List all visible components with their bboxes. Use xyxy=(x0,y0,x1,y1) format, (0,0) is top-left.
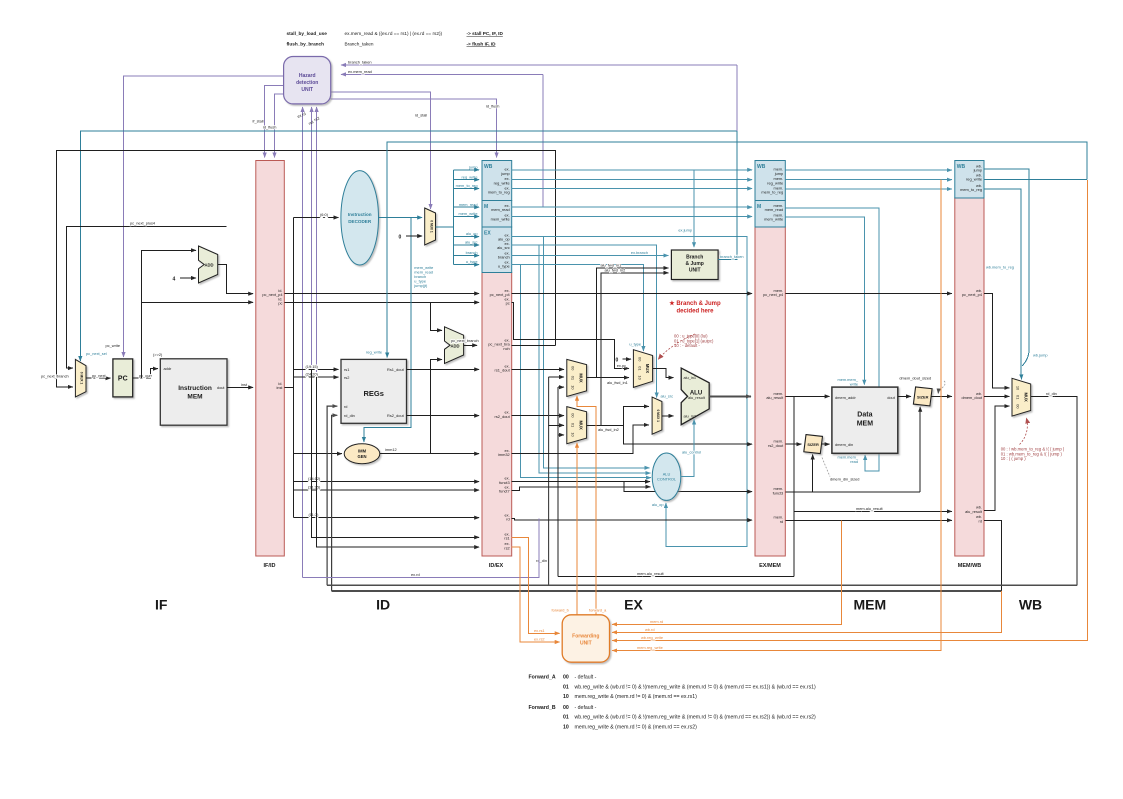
wire ex.branch to branch unit xyxy=(512,255,669,257)
svg-text:alu_control: alu_control xyxy=(682,450,701,455)
svg-text:ID/EX: ID/EX xyxy=(489,563,504,569)
mux control bubble (ID) xyxy=(425,208,436,245)
svg-text:ID: ID xyxy=(376,596,390,612)
svg-text:mem_read: mem_read xyxy=(459,202,478,207)
svg-text:EX/MEM: EX/MEM xyxy=(759,563,781,569)
svg-text:alu_src: alu_src xyxy=(465,240,478,245)
wire ex.reg_write to EX/MEM WB xyxy=(512,179,753,181)
svg-text:rs2: rs2 xyxy=(344,375,349,380)
wire imm12 to ID/EX xyxy=(380,453,479,455)
svg-text:alu_fwd_in2: alu_fwd_in2 xyxy=(605,267,626,272)
wire ctrl alu_op xyxy=(454,236,480,238)
svg-text:pc_curr: pc_curr xyxy=(139,373,153,378)
wire control mux out distribution xyxy=(436,170,454,265)
svg-text:dout: dout xyxy=(887,395,895,400)
svg-text:forward_a: forward_a xyxy=(589,607,607,612)
wire ctrl jump xyxy=(454,169,480,171)
svg-text:read: read xyxy=(850,459,858,464)
wire decoder out to control mux xyxy=(379,217,423,219)
svg-text:4: 4 xyxy=(173,276,176,282)
svg-text:pc_next_branch: pc_next_branch xyxy=(41,373,69,378)
sizer dout xyxy=(913,387,932,406)
svg-text:EX: EX xyxy=(624,596,643,612)
svg-text:Forward_B: Forward_B xyxy=(529,705,556,711)
svg-text:mem_write: mem_write xyxy=(491,217,510,222)
svg-text:pc: pc xyxy=(506,301,510,306)
wire alu_fwd_in1 riser to branch unit xyxy=(597,268,669,378)
svg-text:mem_write: mem_write xyxy=(458,211,477,216)
svg-text:M: M xyxy=(757,204,761,210)
svg-text:GEN: GEN xyxy=(357,454,366,459)
svg-text:★ Branch & Jump: ★ Branch & Jump xyxy=(669,300,721,307)
svg-text:Instruction: Instruction xyxy=(348,212,372,217)
wire ex.rd up into hazard xyxy=(302,107,304,578)
wire id_stall to control mux xyxy=(331,92,431,209)
wire ADD out to IF/ID id.pc_next_p4 xyxy=(218,265,254,294)
wire alu_fwd_in2 xyxy=(587,424,624,426)
wire (24:20) rs2 xyxy=(293,376,338,378)
svg-text:rd: rd xyxy=(979,518,982,523)
wire mem.rs2_dout to sizer xyxy=(785,443,801,445)
svg-text:ADD: ADD xyxy=(450,344,459,349)
wire wb.rd return to REGs rd xyxy=(327,406,337,585)
wire alu_fwd_in1 xyxy=(587,377,629,379)
svg-text:REGs: REGs xyxy=(363,389,383,398)
note Forward_A truth table xyxy=(529,675,817,700)
svg-text:-> stall PC, IF, ID: -> stall PC, IF, ID xyxy=(467,31,504,36)
svg-text:alu_result: alu_result xyxy=(766,395,784,400)
wire rs2 up into hazard xyxy=(316,107,318,377)
svg-text:MEM: MEM xyxy=(187,394,202,401)
register file REGs xyxy=(341,359,407,423)
wire ex.jump tap to branch unit xyxy=(693,170,695,247)
wire ctrl mem_read xyxy=(454,206,480,208)
svg-text:rs1: rs1 xyxy=(504,536,509,541)
svg-text:Rs1_dout: Rs1_dout xyxy=(387,367,405,372)
svg-text:MUX: MUX xyxy=(579,421,584,431)
wire wb.pc_next_p4 to mux 10 xyxy=(984,294,1009,388)
wire mem.alu_result riser to MEM/WB xyxy=(794,396,952,511)
svg-text:WB: WB xyxy=(957,164,966,170)
svg-text:- default -: - default - xyxy=(575,705,597,711)
svg-text:nch: nch xyxy=(503,346,509,351)
wire mem.mem_to_reg to MEM/WB xyxy=(785,188,952,190)
unit forwarding xyxy=(562,615,609,662)
svg-text:decided here: decided here xyxy=(676,309,714,315)
svg-text:wb.reg_write: wb.reg_write xyxy=(641,635,663,640)
wire alu_fwd_in2 to EX/MEM rs2_dout xyxy=(624,425,753,444)
svg-text:00: 00 xyxy=(563,675,569,681)
svg-text:10: 10 xyxy=(563,724,569,730)
svg-text:detection: detection xyxy=(296,80,318,86)
svg-text:u_type: u_type xyxy=(466,259,478,264)
svg-text:alu_op: alu_op xyxy=(652,502,664,507)
wire rd_din return to REGs rd_din xyxy=(332,415,338,591)
svg-text:WB: WB xyxy=(1019,596,1042,612)
svg-text:(14:12): (14:12) xyxy=(308,476,321,481)
ellipse ALU CONTROL xyxy=(652,453,681,500)
register PC xyxy=(113,359,133,397)
wire wb.alu_result to mux 00 xyxy=(984,406,1009,510)
svg-text:ex.rd: ex.rd xyxy=(411,572,420,577)
svg-text:01: 01 xyxy=(563,715,569,721)
svg-text:jump(jt): jump(jt) xyxy=(413,283,428,288)
wire forward_a to mux A xyxy=(577,396,596,615)
wire rs1 index to ID/EX xyxy=(312,369,480,537)
wire rd_din to fwd mux A 01 xyxy=(549,376,564,378)
wire sized din to Data MEM xyxy=(822,443,830,445)
wire alu_src feeder to ALU CONTROL xyxy=(539,245,650,473)
ellipse instruction decoder xyxy=(341,171,379,265)
wire inst distribution vertical xyxy=(284,218,293,518)
wire (31:25) funct7 xyxy=(293,489,479,491)
wire pc_write from hazard xyxy=(124,76,284,357)
svg-text:inst: inst xyxy=(276,385,283,390)
wire alu_result to EX/MEM xyxy=(709,395,751,397)
wire wb.rd down xyxy=(984,520,1002,591)
svg-text:wb.mem_to_reg: wb.mem_to_reg xyxy=(986,265,1014,270)
svg-text:Branch_taken: Branch_taken xyxy=(345,41,374,46)
svg-text:jump: jump xyxy=(468,164,477,169)
svg-text:10 : - default -: 10 : - default - xyxy=(674,343,700,348)
alu xyxy=(681,368,709,425)
svg-text:rd: rd xyxy=(344,404,347,409)
wire rd_din to fwd mux B 01 xyxy=(549,424,564,426)
data memory xyxy=(832,387,898,453)
svg-text:ex.mem_read: ex.mem_read xyxy=(348,69,372,74)
wire wb.rd long return xyxy=(332,590,1002,592)
svg-text:imm12: imm12 xyxy=(385,447,397,452)
wire wb.reg_write xyxy=(984,178,1087,180)
wire ctrl u_type xyxy=(454,264,480,266)
wire mem.alu_result riser down to forwarding xyxy=(793,511,795,576)
wire alu_control to ALU xyxy=(681,420,694,477)
svg-text:imm32: imm32 xyxy=(498,452,510,457)
wire rs1 up into hazard xyxy=(311,107,313,369)
wire reg_write feedback into REGs xyxy=(387,142,1087,358)
svg-text:pc_next: pc_next xyxy=(92,373,107,378)
svg-text:Forwarding: Forwarding xyxy=(572,634,599,640)
wire forward_b to mux B xyxy=(576,443,578,615)
wire imm gen input xyxy=(293,453,342,455)
wire rd_din vertical (WB value) xyxy=(548,377,550,585)
wire alu_src mux out to ALU in2 xyxy=(662,415,674,417)
svg-text:rd: rd xyxy=(506,517,509,522)
wire alu_op to ALU CONTROL xyxy=(544,237,650,468)
wire mem.rd to MEM/WB xyxy=(785,519,952,521)
svg-text:Data: Data xyxy=(857,412,872,419)
wire mem.mem_read to Data MEM xyxy=(785,208,879,471)
wire ex.mem_write to EX/MEM M xyxy=(512,216,753,218)
wire branch_taken to hazard xyxy=(341,64,737,66)
svg-text:if_stall: if_stall xyxy=(253,119,264,124)
wire alu_fwd_in2 to alu_src mux 0 xyxy=(624,406,649,425)
svg-text:SIZER: SIZER xyxy=(807,442,819,447)
svg-text:mem.reg_write: mem.reg_write xyxy=(637,645,663,650)
pipeline register IF/ID xyxy=(256,161,284,570)
wire const 0 into control mux xyxy=(406,235,422,237)
wire pc riser to ADD and IF/ID xyxy=(142,250,196,378)
svg-text:UNIT: UNIT xyxy=(580,641,592,647)
svg-text:Instruction: Instruction xyxy=(178,385,212,392)
svg-text:addr: addr xyxy=(164,366,172,371)
svg-text:flush_by_branch: flush_by_branch xyxy=(287,41,325,46)
wire rs2 index to ID/EX xyxy=(317,377,480,547)
mux forward A xyxy=(567,359,587,396)
svg-text:u_type: u_type xyxy=(498,264,510,269)
instruction memory xyxy=(160,359,227,425)
svg-text:01: 01 xyxy=(563,684,569,690)
svg-text:ex.branch: ex.branch xyxy=(631,250,648,255)
svg-text:alu_result: alu_result xyxy=(688,395,706,400)
svg-text:10 : ( ( jump ): 10 : ( ( jump ) xyxy=(1001,456,1027,461)
svg-text:reg_write: reg_write xyxy=(366,350,382,355)
wire ex.mem_read tap vertical xyxy=(542,74,544,207)
svg-text:CONTROL: CONTROL xyxy=(657,477,677,482)
svg-text:mem_to_reg: mem_to_reg xyxy=(761,190,783,195)
wire ctrl mem_to_reg xyxy=(454,188,480,190)
wire wb.pc_next_p4 from EX/MEM xyxy=(785,293,952,295)
svg-text:ex.mem_read & ((ex.rd == rs1): ex.mem_read & ((ex.rd == rs1) | (ex.rd =… xyxy=(345,31,443,36)
wire mem.reg_write to MEM/WB xyxy=(785,179,952,181)
svg-text:dmem_din_sized: dmem_din_sized xyxy=(830,476,859,481)
wire (6:0) to decoder xyxy=(293,217,338,219)
wire imm format select from decoder xyxy=(364,218,411,443)
svg-text:pc_next_plus4: pc_next_plus4 xyxy=(130,221,156,226)
wire mem fwd to mux A 10 xyxy=(558,386,564,388)
wire mem.funct3 to sizers xyxy=(785,491,920,493)
svg-text:-> flush IF, ID: -> flush IF, ID xyxy=(467,41,497,46)
svg-text:UNIT: UNIT xyxy=(301,87,313,93)
svg-text:pc_write: pc_write xyxy=(106,343,121,348)
svg-text:pc_next_p4: pc_next_p4 xyxy=(763,292,784,297)
svg-text:01: 01 xyxy=(571,423,576,427)
wire ex.mem_read to EX/MEM M xyxy=(512,206,753,208)
svg-text:dout: dout xyxy=(217,385,225,390)
svg-text:ADD: ADD xyxy=(204,262,213,267)
svg-text:Forward_A: Forward_A xyxy=(529,675,556,681)
wire pc tap to branch ADD xyxy=(430,302,442,330)
svg-text:wb.reg_write & (wb.rd != 0) &: wb.reg_write & (wb.rd != 0) & !(mem.reg_… xyxy=(575,684,817,690)
wire ex.rd purple to hazard xyxy=(303,518,539,577)
wire inst to IF/ID xyxy=(227,386,253,388)
mux write back xyxy=(1012,378,1031,416)
svg-text:alu_fwd_in2: alu_fwd_in2 xyxy=(598,427,619,432)
svg-text:PC: PC xyxy=(118,376,128,383)
wire pc_next_branch long feedback xyxy=(57,151,556,387)
svg-text:0: 0 xyxy=(399,235,402,241)
svg-text:alu_src: alu_src xyxy=(661,394,674,399)
wire ex.alu_src xyxy=(512,245,657,398)
wire ctrl reg_write xyxy=(454,179,480,181)
svg-text:- default -: - default - xyxy=(575,675,597,681)
svg-text:MUX: MUX xyxy=(1024,393,1029,403)
svg-text:Rs2_dout: Rs2_dout xyxy=(387,413,405,418)
svg-text:wb.jump: wb.jump xyxy=(1033,353,1048,358)
wire mem.alu_result vertical (MEM value) xyxy=(557,387,559,576)
wire id_flush to IF/ID xyxy=(275,94,284,157)
svg-text:SIZER: SIZER xyxy=(917,394,929,399)
svg-text:mem_to_reg: mem_to_reg xyxy=(456,183,478,188)
svg-text:alu_in1: alu_in1 xyxy=(684,375,697,380)
wire wb.reg_write to forwarding unit xyxy=(612,180,1087,641)
svg-text:WB: WB xyxy=(484,164,493,170)
wire dout to sizer xyxy=(898,395,911,397)
wire mem.alu_result to dmem_addr xyxy=(785,395,829,397)
svg-text:Hazard: Hazard xyxy=(299,73,316,79)
svg-text:reg_write: reg_write xyxy=(461,174,477,179)
ellipse IMM GEN xyxy=(344,444,380,464)
wire branch_taken xyxy=(718,131,737,260)
wire Rs1_dout to ID/EX xyxy=(407,368,480,370)
note wb mux encoding xyxy=(1001,447,1065,462)
wire ctrl mem_write xyxy=(454,216,480,218)
svg-text:01: 01 xyxy=(571,376,576,380)
svg-text:mem.rd: mem.rd xyxy=(650,619,663,624)
svg-text:ex.jump: ex.jump xyxy=(678,228,692,233)
wire funct7 to ALU CONTROL xyxy=(512,487,651,491)
svg-text:alu_in2: alu_in2 xyxy=(684,413,697,418)
wire rd_din from mux xyxy=(1031,396,1077,585)
wire mem.reg_write to forwarding unit xyxy=(612,180,941,651)
wire id_flush to ID/EX WB box xyxy=(331,99,497,158)
svg-text:& Jump: & Jump xyxy=(686,261,704,267)
svg-text:UNIT: UNIT xyxy=(689,268,701,274)
svg-text:rs2_dout: rs2_dout xyxy=(495,414,511,419)
svg-text:mem.alu_result: mem.alu_result xyxy=(637,571,665,576)
svg-text:pc_next_sel: pc_next_sel xyxy=(86,351,107,356)
svg-text:stall_by_load_use: stall_by_load_use xyxy=(287,31,328,36)
wire id.pc_next_p4 to ID/EX xyxy=(284,293,479,295)
hazard detection unit xyxy=(284,57,331,104)
svg-text:(19:15): (19:15) xyxy=(306,364,319,369)
wire ex.alu_op xyxy=(512,237,747,547)
svg-text:MUX: MUX xyxy=(579,373,584,383)
svg-text:write: write xyxy=(850,382,858,387)
wire wb.mem_to_reg to WB mux select xyxy=(984,189,1022,379)
svg-text:pc: pc xyxy=(278,301,282,306)
wire ex.pc_next_p4 to EX/MEM xyxy=(512,293,753,295)
svg-text:MEM: MEM xyxy=(857,421,874,428)
svg-text:EX: EX xyxy=(484,231,491,237)
wire pc_next_plus4 feedback to mux xyxy=(66,226,226,368)
svg-text:(>>2): (>>2) xyxy=(153,352,163,357)
wire alu_fwd_in2 riser to branch unit xyxy=(601,273,669,426)
wire pc_next mux to PC xyxy=(86,377,110,379)
wire ex.jump to EX/MEM WB xyxy=(512,169,753,171)
svg-text:0 MUX 1: 0 MUX 1 xyxy=(656,409,660,422)
svg-text:01: 01 xyxy=(637,366,642,370)
svg-text:(11:7): (11:7) xyxy=(309,512,320,517)
svg-text:0 MUX 1: 0 MUX 1 xyxy=(429,220,433,233)
wire pc_curr to IMEM addr xyxy=(133,369,158,379)
svg-text:10: 10 xyxy=(563,694,569,700)
wire id.pc to ID/EX xyxy=(284,301,479,303)
svg-text:pc_next_p4: pc_next_p4 xyxy=(962,292,983,297)
svg-text:rs1: rs1 xyxy=(344,367,349,372)
note Forward_B truth table xyxy=(529,705,817,731)
svg-text:Branch: Branch xyxy=(686,255,703,261)
wire mem.alu_result feedback lower xyxy=(558,576,794,578)
wire mem.mem_write to Data MEM xyxy=(785,217,864,385)
wire ex.mem_read to hazard xyxy=(341,73,543,75)
wire imm tap to branch ADD xyxy=(430,360,442,454)
svg-text:mem_to_reg: mem_to_reg xyxy=(960,187,982,192)
svg-text:u_type: u_type xyxy=(629,341,641,346)
svg-text:mem.alu_result: mem.alu_result xyxy=(856,506,884,511)
adder ADD (pc+4) xyxy=(199,246,218,283)
wire wb.jump xyxy=(984,169,1029,366)
note u_type mux encoding xyxy=(674,334,714,349)
pipeline register MEM/WB with WB box xyxy=(955,161,984,570)
wire ex.mem_to_reg to EX/MEM WB xyxy=(512,188,753,190)
wire wb.rd to forwarding unit xyxy=(612,591,1001,632)
svg-text:dmem_dout_sized: dmem_dout_sized xyxy=(899,375,931,380)
wire wb.dmem_dout to mux 01 xyxy=(984,395,1009,397)
pipeline register EX/MEM with control boxes xyxy=(755,161,785,570)
note stall_by_load_use xyxy=(287,31,504,36)
wire pc_next_sel long line xyxy=(80,131,737,361)
svg-text:IMM: IMM xyxy=(358,449,367,454)
svg-text:mem_to_reg: mem_to_reg xyxy=(488,190,510,195)
mux forward B xyxy=(567,407,587,444)
svg-text:id_stall: id_stall xyxy=(415,113,427,118)
svg-text:MEM/WB: MEM/WB xyxy=(958,563,982,569)
svg-text:pc_next_branch: pc_next_branch xyxy=(451,338,479,343)
svg-text:rs2_dout: rs2_dout xyxy=(768,443,784,448)
wire ex.rd to EX/MEM xyxy=(512,518,753,520)
svg-text:alu_op: alu_op xyxy=(466,231,478,236)
svg-text:funct3: funct3 xyxy=(773,490,784,495)
svg-text:alu_fwd_in1: alu_fwd_in1 xyxy=(607,380,628,385)
svg-text:rs2: rs2 xyxy=(504,545,509,550)
wire 4 into ADD xyxy=(180,277,196,279)
wire mem.jump to MEM/WB xyxy=(785,169,952,171)
svg-text:DECODER: DECODER xyxy=(348,219,372,224)
svg-text:(31:25): (31:25) xyxy=(308,485,321,490)
svg-text:MEM: MEM xyxy=(853,596,886,612)
svg-text:inst: inst xyxy=(241,382,248,387)
svg-text:ex.pc: ex.pc xyxy=(617,363,626,368)
svg-text:wb.reg_write & (wb.rd != 0) &: wb.reg_write & (wb.rd != 0) & !(mem.reg_… xyxy=(575,715,817,721)
wire dmem_dout_sized to MEM/WB xyxy=(932,395,952,397)
svg-text:mem.reg_write & (mem.rd != 0): mem.reg_write & (mem.rd != 0) & (mem.rd … xyxy=(575,724,698,730)
svg-text:WB: WB xyxy=(757,164,766,170)
wire ex.rs1 to forwarding unit xyxy=(512,537,560,633)
wire pc to IF/ID id.pc xyxy=(142,301,254,303)
svg-text:MUX: MUX xyxy=(645,364,650,374)
svg-text:dmem_addr: dmem_addr xyxy=(835,395,856,400)
svg-text:branch_taken: branch_taken xyxy=(720,254,744,259)
svg-text:ex.rs2: ex.rs2 xyxy=(534,637,545,642)
wire ex.rs2 to forwarding unit xyxy=(512,547,560,642)
wire ctrl alu_src xyxy=(454,244,480,246)
svg-text:IF/ID: IF/ID xyxy=(264,563,276,569)
mux pc_next (IF) xyxy=(75,359,86,397)
svg-text:ex.rs1: ex.rs1 xyxy=(534,628,545,633)
wire pc_next_branch into ID/EX xyxy=(464,344,478,346)
wire const 0 into u_type mux xyxy=(623,358,632,360)
wire ex.u_type to mux xyxy=(512,265,644,351)
svg-text:0 MUX 1: 0 MUX 1 xyxy=(80,372,84,385)
svg-text:M: M xyxy=(484,204,488,210)
svg-text:(6:0): (6:0) xyxy=(320,212,329,217)
wire u_type mux out to ALU in1 xyxy=(653,368,674,377)
sizer din xyxy=(804,435,823,454)
adder ADD (branch target) xyxy=(445,327,464,364)
svg-text:01: 01 xyxy=(1016,395,1021,399)
note decoder signal list xyxy=(413,265,433,288)
